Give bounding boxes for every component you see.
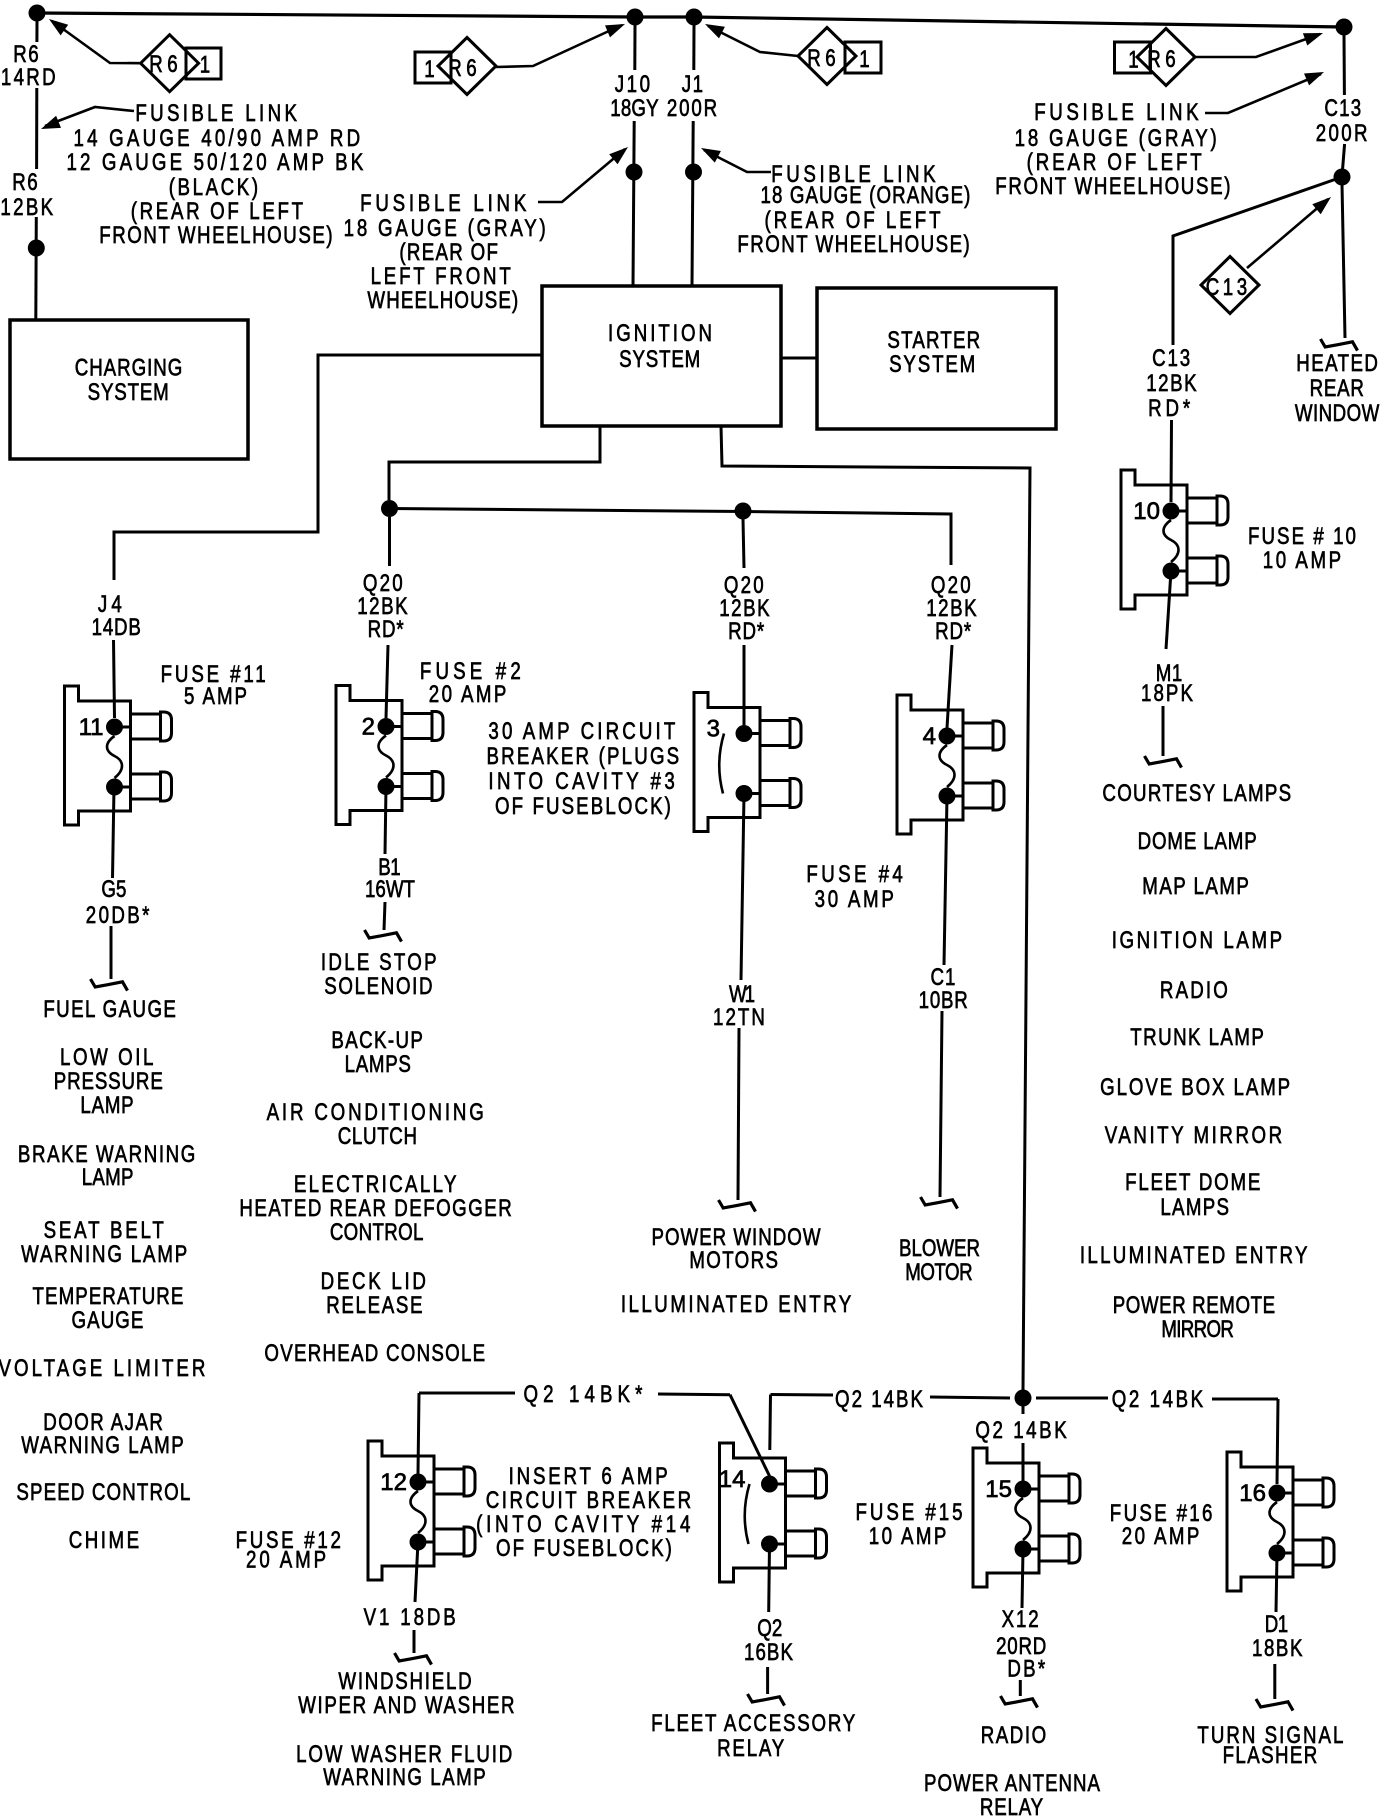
wire: ignition system down to Q2 14BK long vertical: [721, 426, 1030, 1390]
svg-text:SOLENOID: SOLENOID: [324, 973, 434, 1000]
svg-text:(REAR OF LEFT: (REAR OF LEFT: [765, 207, 944, 234]
svg-text:POWER ANTENNA: POWER ANTENNA: [924, 1770, 1101, 1797]
svg-text:(REAR OF: (REAR OF: [399, 239, 499, 266]
svg-text:LEFT FRONT: LEFT FRONT: [371, 263, 514, 290]
svg-text:INSERT 6 AMP: INSERT 6 AMP: [509, 1463, 671, 1490]
svg-text:DECK LID: DECK LID: [321, 1268, 429, 1295]
connector: pigtail to fleet accessory relay: [748, 1694, 785, 1706]
svg-text:WINDOW: WINDOW: [1295, 400, 1380, 427]
svg-text:DB*: DB*: [1007, 1655, 1047, 1682]
svg-text:14DB: 14DB: [92, 614, 142, 641]
wire: leader from right gray note to C13 wire with arrow: [1205, 74, 1321, 113]
svg-text:4: 4: [923, 723, 936, 750]
svg-text:RD*: RD*: [935, 618, 972, 645]
svg-text:14RD: 14RD: [1, 64, 58, 91]
svg-text:12: 12: [380, 1469, 407, 1496]
wire: C13 12BK RD* from C13 junction down to fuse 10: [1173, 177, 1342, 345]
circuit breaker in cavity 3: [694, 693, 801, 832]
svg-text:MAP LAMP: MAP LAMP: [1142, 873, 1250, 900]
svg-text:R6: R6: [807, 45, 840, 72]
svg-text:14 GAUGE 40/90 AMP RD: 14 GAUGE 40/90 AMP RD: [73, 125, 363, 152]
wire: leader from diamond 1-R6 to C13 top junction with arrow: [1195, 34, 1320, 57]
wire: leader from diamond 1-R6 to J10 junction with arrow: [496, 25, 622, 67]
svg-text:FLEET ACCESSORY: FLEET ACCESSORY: [651, 1710, 857, 1737]
connector: pigtail to blower motor: [921, 1197, 958, 1209]
svg-text:BACK-UP: BACK-UP: [331, 1027, 424, 1054]
svg-text:C13: C13: [1152, 345, 1192, 372]
wire: Q2 14BK drop to fuse 15: [1022, 1398, 1025, 1414]
wire: G5 20DB* from fuse 11 to fuel gauge: [113, 787, 115, 878]
svg-text:FUSE # 10: FUSE # 10: [1248, 523, 1358, 550]
svg-text:3: 3: [707, 716, 720, 743]
svg-text:(BLACK): (BLACK): [169, 174, 261, 201]
wire: ignition system down to Q20 bus: [389, 426, 600, 500]
svg-text:1: 1: [859, 46, 869, 73]
node: junction on R6 12BK wire: [28, 240, 45, 257]
svg-text:R6: R6: [149, 51, 182, 78]
svg-text:30 AMP CIRCUIT: 30 AMP CIRCUIT: [488, 718, 678, 745]
svg-text:DOME LAMP: DOME LAMP: [1138, 828, 1258, 855]
svg-text:BREAKER (PLUGS: BREAKER (PLUGS: [486, 743, 681, 770]
svg-text:20 AMP: 20 AMP: [429, 681, 509, 708]
svg-text:(INTO CAVITY #14: (INTO CAVITY #14: [476, 1511, 694, 1538]
svg-text:15: 15: [985, 1476, 1012, 1503]
svg-text:WARNING LAMP: WARNING LAMP: [21, 1241, 189, 1268]
wire: Q20 12BK RD* drop to fuse 4: [947, 645, 952, 728]
svg-text:IDLE STOP: IDLE STOP: [321, 949, 439, 976]
svg-text:VANITY MIRROR: VANITY MIRROR: [1105, 1122, 1285, 1149]
svg-text:LAMPS: LAMPS: [345, 1051, 412, 1078]
svg-text:RADIO: RADIO: [1160, 977, 1230, 1004]
wire: Q2 14BK* bus from fuse 12 to breaker 14: [418, 1393, 419, 1474]
fuse F10 (cavity 10): [1121, 470, 1228, 609]
svg-text:2: 2: [362, 714, 375, 741]
wire: ignition system to starter system: [781, 357, 817, 360]
svg-text:G5: G5: [101, 876, 126, 903]
svg-text:SEAT BELT: SEAT BELT: [44, 1217, 167, 1244]
svg-text:MOTORS: MOTORS: [689, 1247, 779, 1274]
wire: ignition system to fuse 11 feed (J4 14DB): [114, 355, 542, 580]
svg-text:20 AMP: 20 AMP: [246, 1546, 329, 1573]
box: starter system: [817, 288, 1056, 429]
svg-text:VOLTAGE LIMITER: VOLTAGE LIMITER: [0, 1355, 208, 1382]
fuse F16 (cavity 16): [1227, 1452, 1334, 1591]
fuse F12 (cavity 12): [368, 1441, 475, 1580]
node: Q20 junction at fuse 3 column: [735, 503, 752, 520]
svg-text:10: 10: [1133, 498, 1160, 525]
node: junction on J10 wire: [626, 164, 643, 181]
wire: leader from center gray note to J10 wire with arrow: [538, 149, 625, 202]
svg-text:12BK: 12BK: [0, 194, 55, 221]
wire: B1 16WT from fuse 2 to idle stop solenoid: [385, 787, 386, 855]
svg-text:J1: J1: [682, 71, 705, 98]
svg-text:10 AMP: 10 AMP: [1263, 547, 1344, 574]
svg-text:12BK: 12BK: [1146, 370, 1198, 397]
svg-text:18 GAUGE (GRAY): 18 GAUGE (GRAY): [344, 215, 549, 242]
svg-text:FUSIBLE LINK: FUSIBLE LINK: [135, 100, 300, 127]
wire: M1 18PK from fuse 10 to courtesy lamps: [1166, 571, 1171, 649]
svg-text:MIRROR: MIRROR: [1161, 1316, 1233, 1343]
svg-text:1: 1: [1128, 46, 1138, 73]
svg-text:SYSTEM: SYSTEM: [619, 346, 701, 373]
svg-text:PRESSURE: PRESSURE: [54, 1068, 164, 1095]
svg-text:FUSIBLE LINK: FUSIBLE LINK: [1034, 99, 1202, 126]
svg-text:30 AMP: 30 AMP: [815, 886, 897, 913]
box: charging system: [10, 320, 248, 459]
svg-text:1: 1: [424, 56, 434, 83]
svg-text:(REAR OF LEFT: (REAR OF LEFT: [1027, 149, 1205, 176]
connector: diamond R6 / 1 (top left): [141, 35, 199, 92]
svg-text:Q2: Q2: [757, 1615, 782, 1642]
svg-text:LAMP: LAMP: [80, 1092, 134, 1119]
svg-text:WARNING LAMP: WARNING LAMP: [21, 1432, 185, 1459]
svg-text:ELECTRICALLY: ELECTRICALLY: [294, 1171, 459, 1198]
svg-text:16WT: 16WT: [365, 876, 415, 903]
svg-text:WHEELHOUSE): WHEELHOUSE): [367, 287, 519, 314]
svg-text:WINDSHIELD: WINDSHIELD: [338, 1668, 473, 1695]
svg-text:16BK: 16BK: [744, 1639, 794, 1666]
node: C13 junction (heated rear window tap): [1334, 169, 1351, 186]
svg-text:ILLUMINATED ENTRY: ILLUMINATED ENTRY: [621, 1291, 854, 1318]
connector: diamond 1 / R6 (top right): [1137, 29, 1195, 86]
svg-text:5 AMP: 5 AMP: [184, 683, 249, 710]
svg-text:(REAR OF LEFT: (REAR OF LEFT: [131, 198, 306, 225]
svg-text:OVERHEAD CONSOLE: OVERHEAD CONSOLE: [264, 1340, 486, 1367]
wire: Q2 14BK bus right section with corner to breaker 14: [771, 1393, 834, 1397]
wire: leader from diamond R6-1 to J1 junction with arrow: [708, 26, 798, 56]
fuse F2 (cavity 2): [336, 686, 443, 825]
connector: pigtail to courtesy lamp circuits: [1145, 756, 1182, 768]
svg-text:IGNITION: IGNITION: [608, 320, 715, 347]
svg-text:AIR CONDITIONING: AIR CONDITIONING: [267, 1099, 487, 1126]
connector: pigtail to windshield wiper circuits: [395, 1653, 432, 1665]
wire: D1 18BK from fuse 16 to turn signal flasher: [1276, 1553, 1277, 1612]
wire: R6 14RD / R6 12BK down to charging system: [35, 21, 38, 42]
wire: Q20 bus to fuse 3 and fuse 4 columns: [390, 509, 952, 566]
wire: main battery bus (top): [37, 13, 1344, 27]
svg-text:18PK: 18PK: [1141, 680, 1195, 707]
svg-text:D1: D1: [1265, 1611, 1288, 1638]
node: Q20 junction at fuse 2 column: [381, 500, 398, 517]
fuse F11 (cavity 11): [65, 686, 172, 825]
svg-text:20 AMP: 20 AMP: [1122, 1523, 1202, 1550]
svg-text:SYSTEM: SYSTEM: [889, 351, 977, 378]
svg-text:TEMPERATURE: TEMPERATURE: [33, 1283, 185, 1310]
wire: J10 18GY down to ignition system: [633, 25, 636, 70]
wire: W1 12TN from breaker 3 to power window motors: [741, 794, 744, 981]
svg-text:18 GAUGE (GRAY): 18 GAUGE (GRAY): [1015, 125, 1220, 152]
svg-text:STARTER: STARTER: [887, 327, 981, 354]
svg-text:Q2 14BK*: Q2 14BK*: [524, 1381, 648, 1408]
svg-text:10BR: 10BR: [919, 987, 969, 1014]
wire: leader from orange note to J1 wire with arrow: [704, 150, 771, 172]
svg-text:OF FUSEBLOCK): OF FUSEBLOCK): [496, 1535, 674, 1562]
svg-text:FRONT WHEELHOUSE): FRONT WHEELHOUSE): [737, 231, 971, 258]
node: junction on J1 wire: [685, 164, 702, 181]
node: C13 top-right junction: [1336, 19, 1353, 36]
wire: J1 200R down to ignition system: [692, 25, 695, 70]
wire: Q20 12BK RD* drop to fuse 3: [743, 519, 744, 568]
svg-text:CLUTCH: CLUTCH: [338, 1123, 418, 1150]
svg-text:FUSIBLE LINK: FUSIBLE LINK: [360, 190, 530, 217]
svg-text:R6: R6: [12, 169, 39, 196]
connector: pigtail to idle stop solenoid: [365, 930, 402, 942]
wire: Q2 16BK from breaker 14 to fleet accessory relay: [767, 1544, 771, 1612]
svg-text:Q2 14BK: Q2 14BK: [975, 1417, 1069, 1444]
svg-text:GAUGE: GAUGE: [72, 1307, 145, 1334]
connector: pigtail to radio / power antenna relay: [1001, 1696, 1038, 1708]
svg-text:LAMPS: LAMPS: [1160, 1194, 1230, 1221]
svg-text:POWER REMOTE: POWER REMOTE: [1113, 1292, 1276, 1319]
svg-text:200R: 200R: [1316, 120, 1370, 147]
wire: V1 18DB from fuse 12 to windshield wiper: [415, 1542, 418, 1602]
svg-text:FUSE #4: FUSE #4: [806, 861, 906, 888]
svg-text:REAR: REAR: [1310, 375, 1365, 402]
svg-text:CHARGING: CHARGING: [75, 354, 184, 381]
svg-text:11: 11: [79, 714, 104, 741]
svg-text:SYSTEM: SYSTEM: [88, 379, 170, 406]
svg-text:COURTESY LAMPS: COURTESY LAMPS: [1102, 780, 1292, 807]
svg-text:FRONT WHEELHOUSE): FRONT WHEELHOUSE): [99, 222, 334, 249]
wire: leader from diamond C13 to C13 junction with arrow: [1247, 199, 1328, 268]
svg-text:14: 14: [719, 1466, 746, 1493]
svg-text:1: 1: [200, 51, 210, 78]
svg-text:RELAY: RELAY: [717, 1735, 786, 1762]
connector: pigtail to heated rear window: [1321, 339, 1358, 351]
wire: Q2 14BK* diagonal into breaker 14: [730, 1395, 770, 1476]
svg-text:ILLUMINATED ENTRY: ILLUMINATED ENTRY: [1080, 1242, 1310, 1269]
node: J10 top junction: [627, 9, 644, 26]
node: top-left junction (R6 feed): [29, 5, 46, 22]
svg-text:RELAY: RELAY: [980, 1794, 1044, 1816]
connector: pigtail to power window motors: [719, 1200, 756, 1212]
svg-text:FUSE #15: FUSE #15: [856, 1499, 966, 1526]
svg-text:GLOVE BOX LAMP: GLOVE BOX LAMP: [1100, 1074, 1292, 1101]
svg-text:X12: X12: [1002, 1606, 1041, 1633]
svg-text:BLOWER: BLOWER: [899, 1235, 980, 1262]
svg-text:FRONT WHEELHOUSE): FRONT WHEELHOUSE): [995, 173, 1232, 200]
svg-text:HEATED: HEATED: [1296, 350, 1379, 377]
svg-text:Q2 14BK: Q2 14BK: [1112, 1386, 1206, 1413]
box: ignition system: [542, 286, 781, 426]
svg-text:CONTROL: CONTROL: [330, 1219, 424, 1246]
svg-text:HEATED REAR DEFOGGER: HEATED REAR DEFOGGER: [239, 1195, 513, 1222]
connector: diamond R6 / 1 (center-right): [798, 28, 856, 85]
wire: Q20 12BK RD* drop to fuse 2: [388, 517, 391, 566]
connector: diamond 1 / R6 (left-center): [438, 38, 496, 95]
svg-text:MOTOR: MOTOR: [905, 1259, 972, 1286]
wire: X12 20RD DB* from fuse 15 to radio: [1022, 1549, 1023, 1608]
svg-text:SPEED CONTROL: SPEED CONTROL: [16, 1479, 191, 1506]
svg-text:LAMP: LAMP: [82, 1164, 134, 1191]
connector: pigtail to turn signal flasher: [1256, 1699, 1293, 1711]
svg-text:FLEET DOME: FLEET DOME: [1125, 1169, 1262, 1196]
svg-text:12 GAUGE 50/120 AMP BK: 12 GAUGE 50/120 AMP BK: [66, 149, 366, 176]
svg-text:RD*: RD*: [368, 616, 405, 643]
svg-text:CHIME: CHIME: [69, 1527, 142, 1554]
wire: C1 10BR from fuse 4 to blower motor: [944, 796, 947, 965]
svg-text:RD*: RD*: [728, 618, 765, 645]
wire: leader from diamond R6-1 to top-left junction with arrow: [52, 21, 141, 63]
svg-text:R6: R6: [1147, 46, 1180, 73]
svg-text:CIRCUIT BREAKER: CIRCUIT BREAKER: [486, 1487, 694, 1514]
connector: diamond C13: [1201, 257, 1259, 314]
fuse F4 (cavity 4): [897, 695, 1004, 834]
circuit breaker in cavity 14: [719, 1443, 827, 1582]
svg-text:C13: C13: [1324, 95, 1362, 122]
svg-text:TRUNK LAMP: TRUNK LAMP: [1130, 1024, 1265, 1051]
svg-text:12TN: 12TN: [713, 1004, 767, 1031]
svg-text:WARNING LAMP: WARNING LAMP: [323, 1764, 487, 1791]
connector: pigtail to fuel gauge circuits: [91, 979, 128, 991]
svg-text:20DB*: 20DB*: [86, 902, 152, 929]
svg-text:18GY: 18GY: [610, 95, 658, 122]
node: Q2 junction: [1015, 1390, 1032, 1407]
svg-text:16: 16: [1239, 1480, 1266, 1507]
svg-text:WIPER AND WASHER: WIPER AND WASHER: [298, 1692, 516, 1719]
svg-text:10 AMP: 10 AMP: [869, 1523, 949, 1550]
svg-text:LOW OIL: LOW OIL: [60, 1044, 156, 1071]
svg-text:18 GAUGE (ORANGE): 18 GAUGE (ORANGE): [761, 182, 972, 209]
node: J1 top junction: [686, 9, 703, 26]
svg-text:V1 18DB: V1 18DB: [364, 1604, 459, 1631]
svg-text:RADIO: RADIO: [981, 1722, 1048, 1749]
svg-text:R6: R6: [448, 55, 481, 82]
wire: leader from left fusible-link note to R6 wire with arrow: [45, 107, 134, 126]
svg-text:FLASHER: FLASHER: [1223, 1742, 1319, 1769]
svg-text:RELEASE: RELEASE: [326, 1292, 424, 1319]
svg-text:RD*: RD*: [1148, 395, 1194, 422]
svg-text:200R: 200R: [667, 95, 719, 122]
wire: C13 200R down to heated rear window: [1343, 35, 1346, 95]
svg-text:J10: J10: [615, 71, 653, 98]
svg-text:18BK: 18BK: [1252, 1635, 1304, 1662]
svg-text:INTO CAVITY #3: INTO CAVITY #3: [488, 768, 678, 795]
svg-text:C13: C13: [1206, 274, 1251, 301]
svg-text:OF FUSEBLOCK): OF FUSEBLOCK): [495, 793, 673, 820]
svg-text:IGNITION LAMP: IGNITION LAMP: [1112, 927, 1285, 954]
svg-text:Q2 14BK: Q2 14BK: [835, 1386, 925, 1413]
fuse F15 (cavity 15): [973, 1448, 1080, 1587]
svg-text:FUEL GAUGE: FUEL GAUGE: [43, 996, 177, 1023]
